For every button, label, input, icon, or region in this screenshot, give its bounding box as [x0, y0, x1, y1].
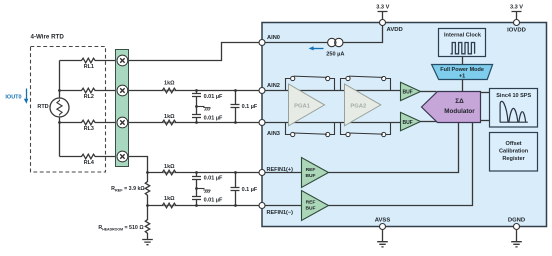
svg-text:AIN2: AIN2	[267, 83, 280, 89]
svg-text:1kΩ: 1kΩ	[164, 114, 175, 120]
switch L-wires PGA2 bottom	[341, 123, 346, 135]
sinc4 filter box	[490, 89, 538, 128]
terminal block J1	[116, 50, 129, 167]
buffer BUF1	[401, 82, 421, 100]
wire: BUF1 to modulator	[421, 91, 437, 93]
svg-text:AIN0: AIN0	[267, 35, 280, 41]
svg-text:REF: REF	[306, 167, 316, 173]
pin AIN3	[259, 120, 265, 126]
svg-text:AIN3: AIN3	[267, 131, 280, 137]
sigma-delta modulator U2	[422, 92, 481, 123]
capacitor 0.1uF (REF)	[231, 173, 240, 206]
node: filter mid AIN	[195, 105, 198, 108]
wire: terminal1 to AIN0	[129, 43, 259, 61]
resistor RHEADROOM 510	[145, 206, 149, 240]
svg-text:REF: REF	[306, 200, 316, 206]
svg-text:0.1 µF: 0.1 µF	[242, 187, 258, 193]
svg-text:3.3 V: 3.3 V	[376, 5, 389, 11]
svg-text:0.01 µF: 0.01 µF	[204, 94, 223, 100]
terminal 3	[117, 117, 128, 128]
svg-text:PGA1: PGA1	[294, 103, 311, 109]
ref buffer REFBUF-	[302, 191, 329, 221]
svg-text:Sinc4 10 SPS: Sinc4 10 SPS	[496, 93, 531, 99]
svg-text:0.01 µF: 0.01 µF	[204, 176, 223, 182]
svg-text:0.01 µF: 0.01 µF	[204, 115, 223, 121]
terminal 1	[117, 55, 128, 66]
full power mode trapezoid	[432, 65, 493, 80]
wire: REFIN+ row	[148, 172, 302, 174]
pin DGND	[514, 224, 520, 230]
internal clock box	[439, 29, 486, 57]
wire: modulator to sinc filter (bottom)	[481, 120, 490, 122]
pin IOVDD	[514, 20, 520, 26]
svg-text:REFIN1(+): REFIN1(+)	[267, 167, 294, 173]
svg-text:0.1 µF: 0.1 µF	[242, 104, 258, 110]
svg-text:ΣΔ: ΣΔ	[455, 98, 464, 105]
switch S2 contacts	[346, 76, 386, 80]
svg-text:0.01 µF: 0.01 µF	[204, 198, 223, 204]
resistor RREF 3.9k	[145, 173, 149, 206]
svg-text:Calibration: Calibration	[499, 148, 529, 154]
svg-text:Modulator: Modulator	[444, 108, 475, 115]
pin AIN2	[259, 88, 265, 94]
capacitor 0.01uF (REFIN- lower)	[192, 189, 201, 206]
svg-text:BUF: BUF	[305, 173, 315, 179]
ground: DGND	[511, 230, 522, 247]
wire: RTD trunk top	[59, 61, 61, 99]
resistor 1k AIN2	[162, 88, 176, 93]
ground: filter mid AIN chassis	[197, 106, 205, 108]
svg-text:RL3: RL3	[84, 126, 94, 132]
wire: REFBUF- output to modulator	[329, 123, 473, 206]
terminal 4	[117, 151, 128, 162]
wire: RTD trunk bottom	[59, 117, 61, 157]
node: RTD bottom junction	[58, 121, 61, 124]
resistor 1k REFIN+	[162, 170, 176, 175]
node: filter mid REF	[195, 187, 198, 190]
svg-text:1kΩ: 1kΩ	[164, 196, 175, 202]
wire: full power mode to modulator	[462, 80, 464, 92]
wire: modulator to sinc filter (top)	[481, 92, 490, 94]
capacitor 0.1uF (AIN)	[231, 91, 240, 123]
pin AVDD	[380, 20, 386, 26]
svg-text:RL2: RL2	[84, 94, 94, 100]
current source 250uA	[328, 38, 336, 46]
resistor RL2 + wire row 2	[60, 88, 116, 93]
svg-text:4-Wire RTD: 4-Wire RTD	[31, 34, 65, 41]
svg-text:1kΩ: 1kΩ	[164, 164, 175, 170]
svg-text:IOVDD: IOVDD	[507, 28, 526, 34]
svg-text:1kΩ: 1kΩ	[164, 81, 175, 87]
wire: REFIN- row	[148, 205, 302, 207]
ground: AVSS	[377, 230, 388, 247]
svg-text:RL1: RL1	[84, 64, 94, 70]
terminal 2	[117, 85, 128, 96]
resistor RL1 + wire row 1	[60, 58, 116, 63]
switch S1 contacts	[291, 76, 330, 80]
resistor 1k REFIN-	[162, 203, 176, 208]
node dots REF filter	[146, 171, 149, 174]
svg-text:BUF: BUF	[305, 206, 315, 212]
capacitor 0.01uF (AIN2 upper)	[192, 91, 201, 107]
pin REFIN1(+)	[259, 170, 265, 176]
ground: filter mid REF chassis	[197, 188, 205, 190]
wire: REFBUF+ output to modulator	[329, 123, 459, 173]
wire: AIN2 row	[129, 90, 401, 92]
switch L-wires PGA1 top	[286, 79, 291, 91]
wire: terminal4 to REF node	[129, 157, 148, 173]
svg-text:REFIN1(−): REFIN1(−)	[267, 210, 294, 216]
wire: AIN3 row	[129, 122, 401, 124]
capacitor 0.01uF (REFIN+ upper)	[192, 173, 201, 189]
clock waveform	[451, 43, 475, 54]
wire: clock to full power mode	[462, 57, 464, 65]
switch L-wires PGA2 top	[341, 79, 346, 91]
offset calibration register box	[490, 133, 538, 172]
wire: BUF2 to modulator	[421, 121, 437, 123]
svg-text:AVDD: AVDD	[387, 27, 403, 33]
svg-text:DGND: DGND	[508, 217, 525, 223]
chip U1 ADC body	[262, 23, 547, 227]
250uA arrow	[313, 48, 324, 50]
PGA2	[345, 84, 381, 126]
pin AIN0	[259, 40, 265, 46]
svg-text:250 µA: 250 µA	[326, 52, 344, 58]
sinc filter response curves	[500, 101, 528, 122]
svg-text:Register: Register	[502, 156, 525, 162]
wire: current source to AIN0	[265, 42, 328, 44]
svg-text:Internal Clock: Internal Clock	[444, 32, 482, 38]
svg-text:BUF: BUF	[402, 120, 412, 126]
svg-text:RTD: RTD	[37, 104, 48, 110]
node dots AIN filter	[195, 89, 198, 92]
svg-text:3.3 V: 3.3 V	[510, 5, 523, 11]
RTD sensor	[50, 98, 69, 117]
svg-text:PGA2: PGA2	[350, 103, 366, 109]
resistor RL3 + wire row 3	[60, 120, 116, 125]
capacitor 0.01uF (AIN3 lower)	[192, 107, 201, 123]
ref buffer REFBUF+	[302, 158, 329, 188]
buffer BUF2	[401, 112, 421, 130]
pin REFIN1(-)	[259, 203, 265, 209]
resistor RL4 + wire row 4	[60, 154, 116, 159]
pin AVSS	[380, 224, 386, 230]
PGA1	[289, 84, 325, 126]
switch S4 contacts	[346, 132, 386, 136]
ground: below RHEADROOM	[142, 240, 153, 245]
node: RTD top junction	[58, 89, 61, 92]
svg-text:+1: +1	[459, 74, 465, 80]
switch L-wires PGA1 bottom	[286, 123, 291, 135]
4-wire RTD dashed enclosure	[31, 47, 106, 173]
switch S3 contacts	[291, 132, 330, 136]
svg-text:AVSS: AVSS	[375, 217, 391, 223]
svg-text:IOUT0: IOUT0	[5, 95, 21, 101]
svg-text:Offset: Offset	[506, 141, 522, 147]
resistor 1k AIN3	[162, 120, 176, 125]
wire: AVDD to current source	[343, 26, 383, 43]
svg-text:BUF: BUF	[402, 90, 412, 96]
svg-text:RL4: RL4	[84, 160, 94, 166]
IOUT0 current arrow	[26, 89, 28, 100]
svg-text:Full Power Mode: Full Power Mode	[440, 67, 484, 73]
